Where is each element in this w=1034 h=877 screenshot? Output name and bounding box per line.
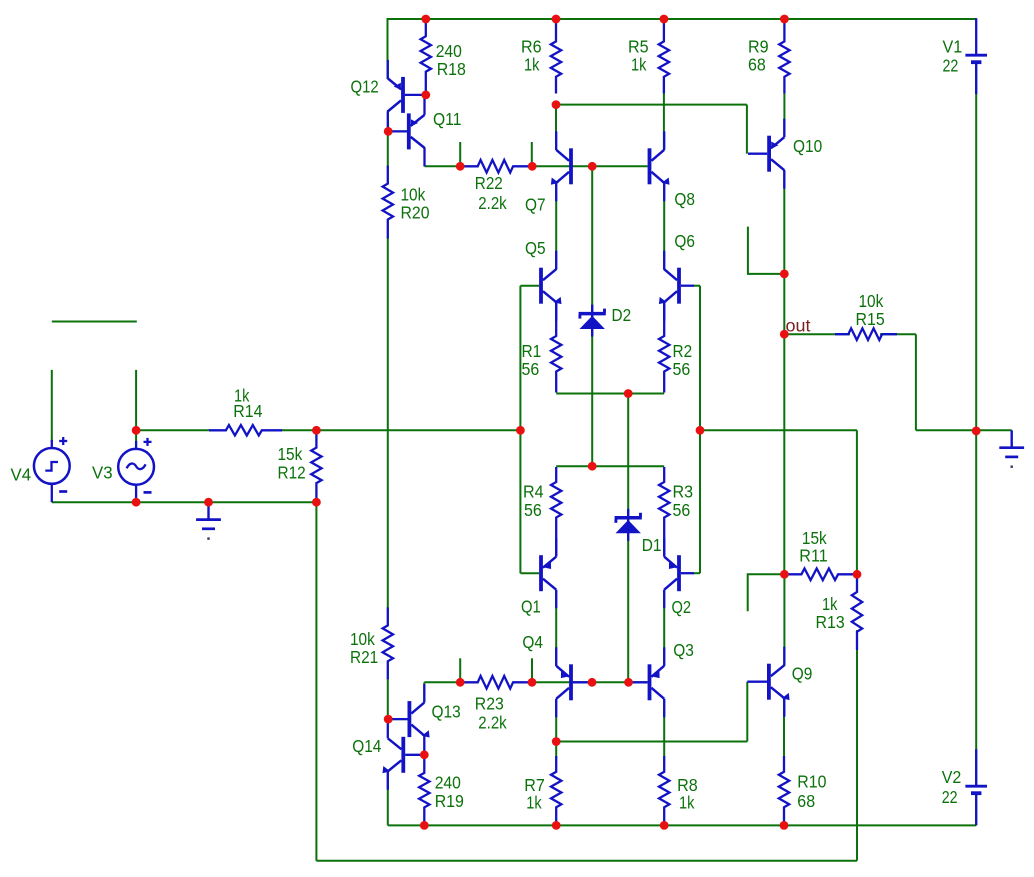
wire Q11 collector to R22 [424, 147, 426, 166]
svg-text:1k: 1k [524, 55, 540, 75]
svg-text:Q8: Q8 [674, 189, 695, 209]
svg-text:1k: 1k [631, 55, 647, 75]
wire Q4 to R7 [555, 699, 557, 757]
svg-text:Q6: Q6 [674, 231, 695, 251]
svg-text:1k: 1k [822, 594, 838, 614]
svg-text:R10: R10 [797, 772, 826, 792]
wire V2 to bottom rail [975, 793, 977, 825]
svg-text:V3: V3 [92, 463, 113, 483]
junction R7 Q9 base node [552, 737, 561, 746]
svg-text:Q3: Q3 [673, 640, 694, 660]
wire node to R20 [387, 131, 389, 167]
junction R11 left out [780, 570, 789, 579]
resistor R9 68 [779, 20, 789, 94]
svg-text:V4: V4 [11, 465, 32, 485]
junction R22 left [456, 162, 465, 171]
source V3 sine [118, 449, 154, 485]
svg-text:22: 22 [943, 56, 959, 76]
wire feedback left vertical [315, 502, 317, 861]
svg-text:R5: R5 [628, 37, 649, 57]
junction Q13 base node [384, 715, 393, 724]
wire R23 base row left [424, 681, 463, 683]
svg-text:R6: R6 [521, 37, 542, 57]
svg-text:22: 22 [942, 787, 958, 807]
resistor R3 56 [659, 467, 669, 556]
svg-text:Q5: Q5 [525, 238, 546, 258]
junction input ground [204, 498, 213, 507]
svg-text:1k: 1k [679, 793, 695, 813]
wire Q5 base stub [520, 285, 539, 287]
resistor R7 1k [551, 756, 561, 824]
resistor R5 1k [659, 20, 669, 94]
wire floating segment [52, 321, 137, 323]
junction R23 right [528, 678, 537, 687]
junction out node [780, 330, 789, 339]
wire V1 to ground node [975, 63, 977, 431]
junction R6 Q7 node [552, 100, 561, 109]
transistor Q1 [539, 555, 543, 591]
svg-text:2.2k: 2.2k [478, 713, 507, 733]
svg-text:R22: R22 [475, 173, 503, 193]
diode D2 zener [579, 312, 606, 316]
junction D1 top [624, 389, 633, 398]
wire ground node to V2 [975, 431, 977, 787]
resistor R11 15k [786, 569, 855, 581]
wire R6 to Q7 collector [555, 105, 557, 150]
wire R9 to Q10 emitter [783, 93, 785, 137]
svg-text:R4: R4 [523, 482, 544, 502]
svg-text:68: 68 [797, 791, 815, 811]
resistor R21 10k [383, 607, 393, 679]
svg-text:Q14: Q14 [352, 736, 381, 756]
junction Q12 collector Q11 base [384, 127, 393, 136]
wire R15 run to ground node [916, 429, 1012, 431]
svg-text:R19: R19 [435, 791, 464, 811]
resistor R6 1k [551, 20, 561, 94]
svg-text:R13: R13 [816, 612, 845, 632]
transistor Q7 [569, 148, 573, 184]
ground input [207, 502, 209, 519]
junction Q4 base node [588, 678, 597, 687]
wire left rail drop to Q12 [387, 19, 389, 79]
svg-text:56: 56 [522, 359, 540, 379]
svg-text:2.2k: 2.2k [478, 193, 507, 213]
wire R23 base row right [528, 681, 648, 683]
wire R5 to Q8 collector [663, 78, 665, 150]
wire Q1 to Q4 [555, 590, 557, 666]
junction V3 input [132, 426, 141, 435]
junction R12 bottom [312, 498, 321, 507]
transistor Q12 [401, 77, 405, 113]
wire stub below R23 right [531, 658, 533, 682]
junction top rail R9 [780, 15, 789, 24]
svg-text:56: 56 [673, 500, 691, 520]
wire R22 base row left [425, 165, 464, 167]
wire Q10 base drop [746, 105, 748, 154]
resistor R15 10k [835, 328, 897, 340]
transistor Q2 [677, 555, 681, 591]
wire mid row right [700, 429, 857, 431]
wire Q12 base node to bar [388, 130, 407, 132]
svg-text:Q11: Q11 [433, 109, 461, 129]
junction R22 right [528, 162, 537, 171]
wire Q12 collector to node [387, 110, 389, 132]
resistor R12 15k [311, 431, 321, 502]
diode D1 zener [615, 516, 642, 520]
battery V1 22 [965, 54, 987, 57]
wire Q7 emitter to Q5 [555, 183, 557, 270]
wire V3 top stub [135, 370, 137, 442]
svg-text:R1: R1 [522, 341, 542, 361]
svg-text:R23: R23 [475, 694, 504, 714]
resistor R2 56 [659, 303, 669, 393]
wire D2 stem [591, 166, 593, 466]
resistor R14 1k [209, 425, 282, 435]
wire input row mid [281, 429, 520, 431]
wire V4 top stub [51, 370, 53, 442]
svg-text:Q12: Q12 [351, 77, 379, 97]
wire Q9 emitter to R10 [783, 699, 785, 757]
transistor Q11 [407, 113, 411, 149]
wire R6 bottom to Q10 base run [556, 104, 747, 106]
transistor Q3 [648, 664, 652, 700]
junction bottom rail R7 [552, 821, 561, 830]
ground right [1011, 430, 1013, 447]
wire Q10 collector down to out [783, 170, 785, 574]
wire Q13 base [388, 718, 407, 720]
junction bottom rail R8 [660, 821, 669, 830]
junction D2 bottom [588, 462, 597, 471]
junction D1 bottom Q3 base [624, 678, 633, 687]
svg-text:Q9: Q9 [792, 664, 813, 684]
junction bottom rail R19 [420, 821, 429, 830]
resistor R23 2.2k [462, 676, 529, 689]
junction top rail R5 [660, 15, 669, 24]
transistor Q8 [648, 148, 652, 184]
svg-text:R14: R14 [233, 401, 262, 421]
svg-text:Q10: Q10 [793, 136, 822, 156]
svg-text:10k: 10k [350, 629, 375, 649]
wire Q9 base rise [746, 682, 748, 742]
wire R20 to R21 [387, 237, 389, 609]
wire D1 stem [627, 394, 629, 683]
wire stub above R22 left [459, 142, 461, 166]
wire input bottom rail [52, 501, 317, 503]
resistor R18 240 [421, 20, 431, 94]
svg-text:Q2: Q2 [672, 597, 692, 617]
wire Q3 to R8 [663, 699, 665, 757]
svg-text:Q13: Q13 [432, 702, 461, 722]
wire R21 to Q13 base node [387, 678, 389, 719]
svg-text:R11: R11 [799, 546, 827, 566]
wire Q9 collector to R11 node [783, 574, 785, 666]
junction Q6 Q2 base column [696, 426, 705, 435]
wire Q1 base stub [520, 572, 539, 574]
svg-text:Q7: Q7 [525, 195, 546, 215]
transistor Q13 [408, 701, 412, 737]
junction Q10 collector stub [780, 270, 789, 279]
svg-text:10k: 10k [859, 291, 884, 311]
junction Q13 emitter Q14 base [420, 750, 429, 759]
transistor Q9 [767, 664, 771, 700]
wire input row left [136, 429, 209, 431]
transistor Q14 [401, 737, 405, 773]
wire R4 R3 top row [556, 465, 664, 467]
resistor R20 10k [383, 166, 393, 239]
svg-text:D2: D2 [612, 305, 632, 325]
svg-text:15k: 15k [278, 444, 303, 464]
svg-text:R20: R20 [401, 203, 430, 223]
svg-text:R2: R2 [673, 341, 693, 361]
wire Q6 base vertical [699, 286, 701, 574]
svg-text:R21: R21 [350, 647, 378, 667]
svg-text:R12: R12 [278, 463, 306, 483]
wire stub below R23 left [459, 658, 461, 682]
svg-text:240: 240 [435, 773, 461, 793]
wire R13 bottom vertical [856, 630, 858, 861]
resistor R19 240 [419, 756, 429, 824]
junction R11 right R13 [853, 570, 862, 579]
wire R1 R2 bottom row [556, 393, 664, 395]
svg-text:Q1: Q1 [521, 597, 541, 617]
junction V3 minus [132, 498, 141, 507]
transistor Q5 [539, 268, 543, 304]
wire Q13 collector corner [423, 682, 425, 702]
svg-text:out: out [786, 316, 811, 336]
wire Q8 emitter to Q6 [663, 183, 665, 270]
resistor R13 1k [852, 575, 862, 650]
wire top rail [387, 18, 977, 20]
junction supply mid ground [972, 427, 981, 436]
resistor R22 2.2k [462, 160, 529, 173]
transistor Q10 [767, 136, 771, 172]
svg-text:V1: V1 [943, 37, 963, 57]
transistor Q4 [569, 664, 573, 700]
wire Q14 emitter to bottom rail [387, 770, 389, 825]
svg-text:68: 68 [748, 55, 766, 75]
wire Q6 base corner [693, 285, 700, 287]
svg-text:R9: R9 [748, 37, 769, 57]
junction D2 top [588, 162, 597, 171]
wire R15 drop [915, 334, 917, 430]
transistor Q6 [677, 268, 681, 304]
junction top rail R18 [421, 15, 430, 24]
wire R22 base row right [528, 165, 648, 167]
wire drop to R11 R13 node [856, 430, 858, 574]
junction R14 R12 [312, 426, 321, 435]
wire second bottom rail [316, 860, 857, 862]
junction Q5 Q1 base column [516, 426, 525, 435]
battery V2 22 [965, 785, 987, 788]
wire R7 to Q9 base run [556, 741, 747, 743]
svg-text:R15: R15 [856, 309, 885, 329]
resistor R8 1k [659, 756, 669, 824]
junction top rail R6 [552, 15, 561, 24]
svg-text:D1: D1 [642, 535, 662, 555]
wire stub above R22 right [531, 142, 533, 166]
wire Q5 base vertical [519, 286, 521, 574]
wire R15 to right corner [880, 333, 916, 335]
junction R23 left [456, 678, 465, 687]
junction Q12 base R18 [421, 91, 430, 100]
resistor R10 68 [779, 756, 789, 824]
svg-text:Q4: Q4 [522, 632, 543, 652]
svg-text:56: 56 [673, 359, 691, 379]
svg-text:R3: R3 [673, 482, 694, 502]
svg-text:V2: V2 [942, 767, 962, 787]
svg-text:R18: R18 [437, 59, 466, 79]
resistor R1 56 [551, 303, 561, 393]
junction bottom rail R10 [780, 821, 789, 830]
wire Q2 base corner [693, 572, 700, 574]
resistor R4 56 [551, 467, 561, 556]
svg-text:240: 240 [436, 41, 462, 61]
wire bottom rail [388, 824, 976, 826]
svg-text:56: 56 [524, 500, 542, 520]
wire Q2 to Q3 [663, 590, 665, 666]
wire out to R15 [784, 333, 850, 335]
wire lower L stub [748, 574, 785, 611]
source V4 step [34, 448, 70, 484]
svg-text:1k: 1k [526, 793, 542, 813]
wire upper L stub [748, 227, 784, 274]
